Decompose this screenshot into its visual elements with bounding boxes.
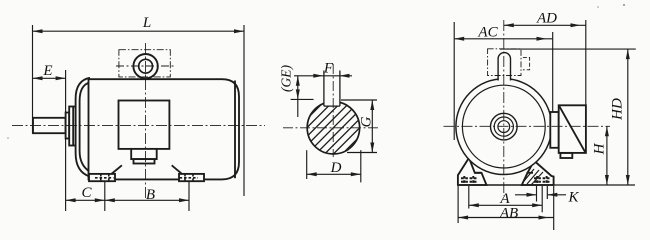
- svg-text:B: B: [146, 187, 155, 203]
- dim GE line: [297, 76, 299, 117]
- left foot hole hidden lines: [95, 174, 114, 181]
- svg-text:H: H: [592, 142, 608, 155]
- front end bell inner: [80, 82, 90, 171]
- fan cover joint line: [234, 81, 236, 179]
- scan speck: [597, 6, 599, 8]
- dim E extension right: [65, 70, 67, 211]
- right foot rib: [172, 165, 182, 174]
- ground line: [458, 184, 554, 186]
- dim K hole edge extension left: [536, 186, 538, 202]
- arrow HD up: [626, 49, 630, 59]
- dim K hole edge extension right: [546, 186, 548, 199]
- dim AB extension right: [553, 186, 555, 230]
- arrow E right: [56, 76, 66, 80]
- vertical centerline: [503, 20, 505, 196]
- dim G line: [371, 100, 373, 153]
- dim A extension right: [541, 186, 543, 212]
- svg-text:E: E: [42, 63, 52, 79]
- front end bell outer: [76, 78, 90, 177]
- arrow B left: [105, 198, 115, 202]
- svg-text:AC: AC: [477, 25, 498, 41]
- arrow E left: [33, 76, 43, 80]
- right foot hatching: [524, 169, 543, 185]
- dim AC extension left: [453, 22, 455, 140]
- dim AB line: [458, 217, 554, 219]
- left foot rib: [112, 165, 122, 174]
- dim HD line: [627, 49, 629, 185]
- arrow AC left: [454, 37, 464, 41]
- svg-text:HD: HD: [610, 98, 626, 121]
- dim HD top extension: [500, 48, 636, 50]
- arrow H up: [605, 126, 609, 136]
- svg-text:D: D: [330, 160, 342, 176]
- left foot: [89, 174, 115, 181]
- eyebolt phantom box front: [488, 49, 521, 76]
- terminal box diagonal: [559, 106, 585, 152]
- horizontal centerline: [12, 124, 265, 126]
- terminal box connector: [550, 112, 558, 148]
- arrow F left: [313, 74, 323, 78]
- terminal box bottom tab: [560, 153, 572, 158]
- scan speck: [623, 4, 625, 6]
- arrow L left: [33, 29, 43, 33]
- hatching: [291, 42, 375, 214]
- right foot: [179, 174, 204, 181]
- dim E line: [33, 77, 66, 79]
- eyebolt outer circle: [133, 54, 157, 78]
- right foot hole hidden lines: [534, 176, 550, 185]
- dim GE lower extension: [291, 98, 314, 100]
- arrow G down: [370, 143, 374, 153]
- arrow AB right: [539, 216, 549, 220]
- dim L extension right: [243, 25, 245, 196]
- eyebolt phantom box: [119, 50, 170, 77]
- hub circle mid: [494, 117, 513, 136]
- dim AC extension right: [552, 32, 554, 112]
- arrow AD left: [504, 23, 514, 27]
- dim D extension right: [360, 150, 362, 182]
- dim D line: [307, 173, 361, 175]
- eyebolt front: [498, 53, 510, 81]
- dim D extension left: [306, 150, 308, 179]
- frame rim circle: [462, 85, 545, 168]
- terminal box gland tip: [134, 159, 155, 163]
- shaft section circle: [307, 102, 359, 154]
- dim K tail right: [547, 194, 566, 196]
- shaft: [33, 118, 66, 133]
- ground extension line: [554, 184, 635, 186]
- arrow C left: [66, 198, 76, 202]
- motor frame body: [89, 79, 240, 179]
- arrow G up: [370, 100, 374, 110]
- vertical centerline: [332, 64, 334, 157]
- arrow HD down: [626, 175, 630, 185]
- hub circle outer: [491, 113, 518, 140]
- shaft shoulder ring: [66, 113, 70, 139]
- svg-text:AD: AD: [536, 11, 557, 27]
- vertical centerline: [145, 43, 147, 200]
- svg-text:C: C: [81, 185, 92, 201]
- arrow D right: [351, 172, 361, 176]
- phantom bracket: [523, 57, 530, 69]
- dim G top extension: [341, 99, 377, 101]
- horizontal centerline: [444, 125, 611, 127]
- horizontal centerline: [283, 127, 378, 129]
- dim G bottom extension: [347, 152, 377, 154]
- right foot hole hidden lines: [180, 174, 199, 181]
- arrow A right: [532, 203, 542, 207]
- dim AD extension right: [585, 20, 587, 105]
- key: [324, 71, 340, 107]
- dim C/B line: [66, 199, 189, 201]
- dim L extension left: [32, 25, 34, 133]
- dim L line: [33, 30, 245, 32]
- arrow H down: [605, 175, 609, 185]
- bearing cap inner line: [72, 107, 74, 146]
- arrow K right: [547, 193, 557, 197]
- left foot front: [458, 156, 487, 186]
- svg-text:K: K: [567, 190, 579, 206]
- arrow D left: [307, 172, 317, 176]
- dim AC line: [454, 38, 553, 40]
- dim AB extension left: [457, 186, 459, 223]
- svg-text:L: L: [142, 15, 151, 31]
- svg-text:F: F: [323, 61, 334, 77]
- dim A line: [469, 204, 542, 206]
- left foot hole hidden lines: [461, 176, 477, 185]
- arrow GE up: [296, 76, 300, 86]
- terminal box (side view): [119, 101, 170, 149]
- svg-text:G: G: [359, 116, 375, 127]
- arrow AC right: [537, 37, 547, 41]
- left foot ledge: [475, 172, 482, 174]
- arrow F right: [340, 74, 350, 78]
- arrow GE down: [296, 89, 300, 99]
- arrow AB left: [458, 216, 468, 220]
- stator circle: [456, 79, 552, 175]
- svg-text:AB: AB: [499, 205, 518, 221]
- arrow B right: [179, 198, 189, 202]
- terminal box front: [559, 105, 586, 153]
- arrow L right: [234, 29, 244, 33]
- shaft hole circle: [498, 121, 510, 133]
- dim A extension left: [468, 186, 470, 209]
- bearing cap: [69, 107, 77, 146]
- eyebolt horizontal centerline: [116, 65, 175, 67]
- dim AD line: [504, 24, 586, 26]
- eyebolt inner circle: [139, 59, 153, 73]
- svg-text:(GE): (GE): [279, 65, 294, 92]
- right foot front: [522, 158, 554, 185]
- right foot ledge: [527, 172, 534, 174]
- dim B extension right: [188, 181, 190, 212]
- arrow C right: [95, 198, 105, 202]
- dim F line: [294, 75, 352, 77]
- arrow K left: [527, 193, 537, 197]
- arrow A left: [469, 203, 479, 207]
- terminal box gland: [131, 149, 157, 159]
- arrow AD right: [571, 23, 581, 27]
- scan speck: [7, 137, 9, 139]
- dim H line: [606, 126, 608, 185]
- dim K line left: [515, 194, 537, 196]
- dim C extension mid: [104, 181, 106, 211]
